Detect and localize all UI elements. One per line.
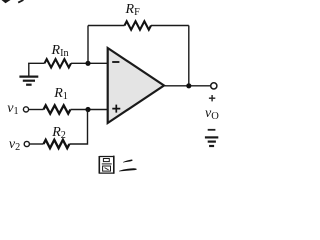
stray mark (cropped text remnant, slash) [18,0,23,3]
caption char 圖 [99,156,114,174]
node: output junction [186,83,191,88]
ground (output reference) [205,137,218,146]
node B: non-inverting input junction [85,107,90,112]
label: - polarity [208,129,216,131]
terminal vO (open circle) [211,83,217,89]
wire: R_In to op-amp inverting input [71,62,108,64]
op-amp inverting (-) mark [112,61,119,63]
resistor RF [125,21,151,29]
label: + polarity [209,95,215,101]
resistor R2 [44,140,70,148]
wire: op-amp output to terminal [164,85,211,87]
wire: ground to R_In [28,62,44,64]
wire: top rail right segment [151,25,189,27]
stray mark (cropped text remnant, top-left check shape) [2,0,11,3]
label vO [205,106,219,122]
wire: feedback left vertical [87,26,89,64]
op-amp non-inverting (+) mark [112,105,120,113]
wire: v1 to R1 [28,109,43,111]
terminal v1 (open circle) [23,107,28,112]
wire: top rail left segment [88,25,125,27]
resistor R1 [44,105,71,113]
caption: 圖二 (drawn strokes) [0,0,227,181]
label RF [126,2,140,18]
op-amp U1 triangle [108,48,164,123]
label R2 [52,125,66,141]
resistor R_In [45,59,71,67]
wire: R2 to riser and up to node B [69,110,87,145]
label v2 [9,137,20,153]
caption char 二 [119,159,137,171]
terminal v2 (open circle) [24,141,29,146]
wire: feedback right vertical [188,26,190,86]
wire: v2 to R2 [29,143,43,145]
ground (left, at R_In input) [19,63,38,84]
label RIn [52,43,69,59]
label R1 [54,86,68,102]
label v1 [7,101,18,117]
node A: inverting input junction [85,61,90,66]
wire: R1 to op-amp non-inverting input [71,109,108,111]
